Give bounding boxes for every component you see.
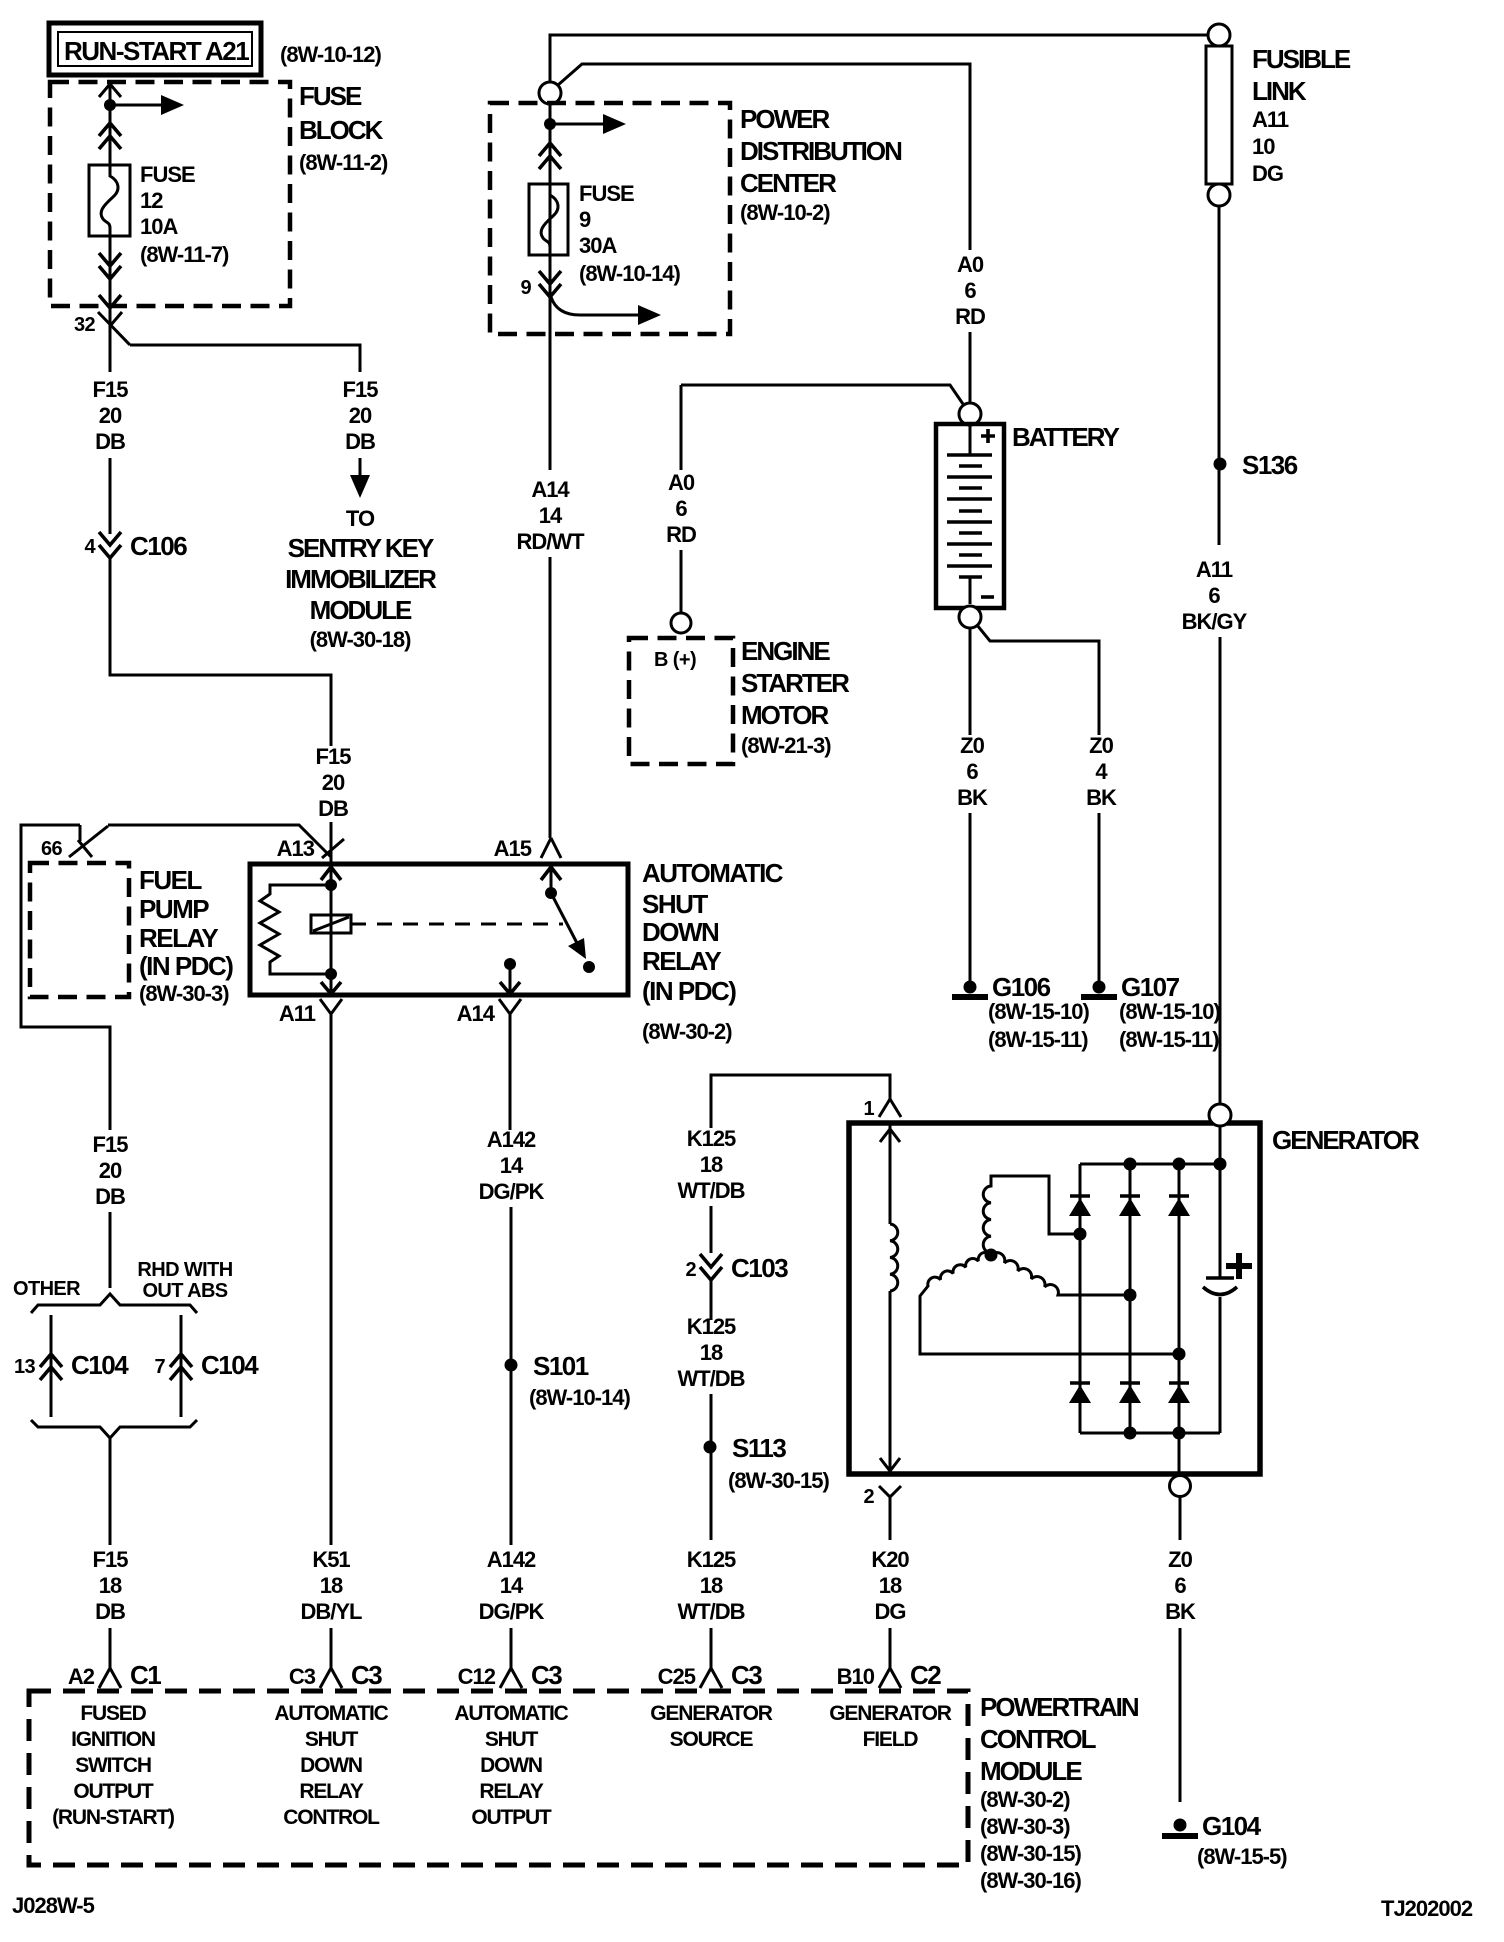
relay coil box: [311, 915, 351, 933]
svg-text:C1: C1: [130, 1660, 161, 1690]
relay switch contact top: [545, 887, 557, 899]
svg-text:AUTOMATIC: AUTOMATIC: [454, 1702, 568, 1725]
svg-text:OUTPUT: OUTPUT: [471, 1806, 552, 1829]
svg-text:C104: C104: [201, 1350, 259, 1380]
svg-text:BATTERY: BATTERY: [1012, 422, 1120, 452]
svg-text:K125: K125: [687, 1126, 736, 1151]
svg-text:1: 1: [863, 1098, 874, 1120]
arrowhead up at fuse block border: [99, 84, 121, 97]
connector chevrons down: [99, 253, 121, 279]
svg-text:BK/GY: BK/GY: [1182, 609, 1248, 634]
svg-text:(8W-30-18): (8W-30-18): [310, 627, 411, 652]
label FUSED IGNITION SWITCH OUTPUT (RUN-START): [52, 1702, 174, 1829]
wire A14 down to relay pin A15: [549, 557, 552, 838]
svg-text:G104: G104: [1202, 1811, 1262, 1841]
svg-text:6: 6: [966, 759, 978, 784]
svg-text:DB: DB: [345, 429, 375, 454]
wire A0 into battery positive: [969, 332, 972, 403]
stator winding phase B: [920, 1252, 1179, 1354]
svg-text:C106: C106: [130, 531, 187, 561]
svg-text:(RUN-START): (RUN-START): [52, 1806, 174, 1829]
label GENERATOR SOURCE: [650, 1702, 772, 1751]
wire branch to sentry key module: [130, 345, 360, 372]
relay coil wire: [330, 864, 333, 995]
label F15 18 DB: [93, 1547, 129, 1624]
svg-text:(8W-15-10): (8W-15-10): [988, 999, 1089, 1024]
wire C103 to S113: [710, 1280, 713, 1320]
chevron at fuse block exit: [99, 295, 121, 308]
wire splice to fuel pump relay: [108, 825, 344, 858]
field coil: [890, 1224, 898, 1291]
relay switch contact bottom: [583, 961, 595, 973]
label TO SENTRY KEY IMMOBILIZER MODULE: [285, 506, 437, 652]
wire from RUN-START A21 into fuse block: [109, 84, 112, 165]
wire from C106 to A13 column: [110, 556, 331, 746]
svg-text:AUTOMATIC: AUTOMATIC: [642, 858, 784, 888]
svg-text:FUEL: FUEL: [139, 865, 203, 895]
diode D5 lower: [1119, 1383, 1141, 1403]
label G106: [988, 972, 1089, 1052]
wire down left side to C104: [21, 825, 110, 1130]
svg-text:TO: TO: [346, 506, 375, 531]
svg-text:F15: F15: [343, 377, 379, 402]
arrow feed to other circuits: [550, 123, 606, 126]
phase B node: [1173, 1348, 1186, 1361]
svg-text:(8W-10-2): (8W-10-2): [740, 200, 830, 225]
svg-text:RELAY: RELAY: [299, 1780, 363, 1803]
label POWER DISTRIBUTION CENTER: [740, 104, 902, 225]
svg-text:DOWN: DOWN: [642, 917, 719, 947]
pin A15 fork: [541, 838, 561, 858]
svg-text:A14: A14: [531, 477, 570, 502]
wire from merge to F15 18 DB: [109, 1438, 112, 1545]
relay mechanical link dashed: [351, 923, 563, 926]
wire Z0 6 BK to G106: [969, 628, 972, 735]
field wire arrow down: [880, 1458, 900, 1471]
svg-text:GENERATOR: GENERATOR: [650, 1702, 772, 1725]
svg-text:BK: BK: [957, 785, 988, 810]
svg-text:DB/YL: DB/YL: [301, 1599, 363, 1624]
pin A14 fork: [499, 999, 521, 1014]
ground G106: [952, 981, 988, 998]
svg-text:K51: K51: [312, 1547, 350, 1572]
svg-text:WT/DB: WT/DB: [677, 1178, 744, 1203]
svg-text:6: 6: [675, 496, 687, 521]
svg-text:CENTER: CENTER: [740, 168, 837, 198]
connector chevrons up: [539, 143, 561, 169]
svg-text:Z0: Z0: [1168, 1547, 1192, 1572]
wire into relay pin A13: [330, 822, 333, 864]
node junction dot: [104, 99, 116, 111]
svg-text:FUSE: FUSE: [140, 162, 195, 187]
svg-text:WT/DB: WT/DB: [677, 1366, 744, 1391]
svg-text:(8W-15-10): (8W-15-10): [1119, 999, 1220, 1024]
label Z0 6 BK (generator): [1165, 1547, 1196, 1624]
svg-text:G107: G107: [1121, 972, 1180, 1002]
svg-text:2: 2: [685, 1259, 696, 1281]
node junction dot in PDC: [544, 118, 556, 130]
svg-text:(IN PDC): (IN PDC): [642, 976, 736, 1006]
svg-text:(8W-10-14): (8W-10-14): [529, 1385, 630, 1410]
generator field wire: [889, 1123, 892, 1474]
svg-text:CONTROL: CONTROL: [980, 1724, 1097, 1754]
label Z0 6 BK: [957, 733, 988, 810]
svg-text:IGNITION: IGNITION: [71, 1728, 155, 1751]
fuse F12 element curve: [101, 165, 118, 236]
generator output terminal: [1209, 1104, 1231, 1126]
svg-text:B (+): B (+): [654, 649, 696, 671]
label K125 18 WT/DB (upper): [677, 1126, 744, 1203]
svg-text:20: 20: [99, 1158, 122, 1183]
svg-text:S136: S136: [1242, 450, 1298, 480]
svg-text:BK: BK: [1086, 785, 1117, 810]
wire Z0 to G104: [1179, 1628, 1182, 1802]
label A14 14 RD/WT: [516, 477, 585, 554]
label K51 18 DB/YL: [301, 1547, 363, 1624]
svg-text:DG: DG: [875, 1599, 906, 1624]
wire into pin C12: [510, 1628, 513, 1668]
svg-text:14: 14: [539, 503, 563, 528]
svg-text:(8W-10-14): (8W-10-14): [579, 261, 680, 286]
label A11 6 BK/GY: [1182, 557, 1248, 634]
diode D2 upper: [1119, 1196, 1141, 1216]
connector chevrons up: [99, 123, 121, 149]
svg-text:20: 20: [322, 770, 345, 795]
wire A142 to S101: [510, 1207, 513, 1545]
pin 1 fork: [879, 1099, 901, 1117]
svg-text:RELAY: RELAY: [642, 946, 721, 976]
diode column 3 wire: [1178, 1164, 1181, 1433]
svg-text:4: 4: [84, 536, 96, 558]
wire to S113: [710, 1394, 713, 1540]
label Z0 4 BK: [1086, 733, 1117, 810]
label AUTOMATIC SHUT DOWN RELAY (IN PDC): [642, 858, 784, 1044]
connector C104 chevrons (7): [170, 1354, 192, 1380]
wire F15 left down: [109, 326, 112, 372]
svg-text:6: 6: [1208, 583, 1220, 608]
svg-text:A0: A0: [668, 470, 695, 495]
svg-text:12: 12: [140, 188, 163, 213]
wire into B(+) stud: [680, 550, 683, 613]
split brace top: [31, 1294, 197, 1313]
svg-text:6: 6: [964, 278, 976, 303]
svg-text:20: 20: [99, 403, 122, 428]
generator ground terminal: [1170, 1476, 1191, 1497]
relay switch common wire: [550, 864, 553, 893]
svg-text:DG/PK: DG/PK: [479, 1599, 545, 1624]
label ENGINE STARTER MOTOR: [741, 636, 850, 758]
pin C25 fork: [700, 1668, 722, 1688]
pin C12 fork: [500, 1668, 522, 1688]
svg-text:MODULE: MODULE: [980, 1756, 1082, 1786]
svg-text:RHD WITH: RHD WITH: [137, 1259, 232, 1281]
svg-text:BK: BK: [1165, 1599, 1196, 1624]
svg-text:A14: A14: [457, 1001, 496, 1026]
svg-text:FIELD: FIELD: [863, 1728, 919, 1751]
svg-text:(IN PDC): (IN PDC): [139, 951, 233, 981]
fusible link top terminal: [1208, 24, 1230, 46]
svg-text:G106: G106: [992, 972, 1051, 1002]
relay output wire A14: [509, 964, 512, 995]
svg-text:20: 20: [349, 403, 372, 428]
svg-text:ENGINE: ENGINE: [741, 636, 830, 666]
capacitor C1: [1203, 1278, 1237, 1295]
label FUSE BLOCK: [299, 81, 388, 175]
svg-text:(8W-30-16): (8W-30-16): [980, 1868, 1081, 1893]
label G104: [1197, 1811, 1287, 1869]
battery cell plates: [947, 455, 992, 577]
splice S113: [704, 1441, 717, 1454]
svg-text:MOTOR: MOTOR: [741, 700, 830, 730]
wire Z0 6 BK lower: [969, 813, 972, 983]
svg-text:(8W-15-11): (8W-15-11): [1119, 1027, 1219, 1052]
svg-text:FUSIBLE: FUSIBLE: [1252, 44, 1351, 74]
engine starter motor dashed box: [629, 638, 733, 764]
wire battery feed to battery: [558, 64, 970, 250]
svg-text:K125: K125: [687, 1314, 736, 1339]
label AUTOMATIC SHUT DOWN RELAY OUTPUT: [454, 1702, 568, 1829]
label FUEL PUMP RELAY (IN PDC): [139, 865, 233, 1006]
svg-text:RELAY: RELAY: [479, 1780, 543, 1803]
svg-text:C103: C103: [731, 1253, 788, 1283]
svg-text:7: 7: [154, 1356, 165, 1378]
wire into pin C25: [710, 1628, 713, 1668]
switch feed to other circuits: [551, 297, 642, 315]
svg-text:SHUT: SHUT: [642, 889, 708, 919]
label FUSIBLE LINK A11 10 DG: [1252, 44, 1351, 186]
svg-text:(8W-10-12): (8W-10-12): [280, 42, 381, 67]
svg-text:18: 18: [320, 1573, 343, 1598]
pin B10 fork: [879, 1668, 901, 1688]
branch wire right (RHD): [180, 1315, 183, 1417]
connector chevrons down: [539, 271, 561, 297]
svg-text:10: 10: [1252, 134, 1275, 159]
wire to split brace: [109, 1212, 112, 1288]
fusible link body: [1206, 46, 1232, 184]
svg-text:C3: C3: [531, 1660, 562, 1690]
svg-text:6: 6: [1174, 1573, 1186, 1598]
battery minus sign: [981, 595, 994, 599]
svg-text:C3: C3: [731, 1660, 762, 1690]
svg-text:30A: 30A: [579, 233, 617, 258]
label G107: [1119, 972, 1220, 1052]
diode D4 lower: [1069, 1383, 1091, 1403]
PCM dashed box: [29, 1691, 968, 1865]
splice S136: [1214, 458, 1227, 471]
svg-text:DB: DB: [95, 1184, 125, 1209]
ground G107: [1081, 981, 1117, 998]
svg-text:(8W-21-3): (8W-21-3): [741, 733, 831, 758]
svg-text:C3: C3: [289, 1664, 316, 1689]
svg-text:DB: DB: [95, 1599, 125, 1624]
fuse F12 body: [89, 165, 130, 236]
coil node bottom: [325, 968, 337, 980]
label GENERATOR FIELD: [829, 1702, 951, 1751]
svg-text:OTHER: OTHER: [13, 1278, 81, 1300]
svg-text:RUN-START A21: RUN-START A21: [64, 36, 249, 66]
pin A2 fork: [99, 1668, 121, 1688]
label K20 18 DG: [871, 1547, 909, 1624]
connector C106 chevrons: [99, 532, 121, 558]
pin C3 fork: [320, 1668, 342, 1688]
svg-text:(8W-11-2): (8W-11-2): [299, 150, 388, 175]
svg-text:(8W-11-7): (8W-11-7): [140, 242, 229, 267]
wire A11 down to generator output: [1219, 637, 1222, 1104]
diode D3 upper: [1168, 1196, 1190, 1216]
svg-text:(8W-15-11): (8W-15-11): [988, 1027, 1088, 1052]
svg-text:32: 32: [74, 314, 96, 336]
battery positive terminal: [959, 403, 981, 425]
label F15 20 DB (left): [93, 377, 129, 454]
svg-text:4: 4: [1095, 759, 1108, 784]
svg-text:A11: A11: [1252, 107, 1289, 132]
pin A14 chevron inside: [500, 982, 520, 994]
svg-text:K20: K20: [871, 1547, 909, 1572]
svg-text:TJ202002: TJ202002: [1381, 1896, 1473, 1921]
label F15 20 DB (right): [343, 377, 379, 454]
svg-text:SOURCE: SOURCE: [670, 1728, 754, 1751]
svg-text:RD: RD: [666, 522, 696, 547]
label FUSE 12 10A: [140, 162, 229, 267]
svg-text:(8W-30-3): (8W-30-3): [139, 981, 229, 1006]
svg-text:SHUT: SHUT: [305, 1728, 359, 1751]
svg-text:J028W-5: J028W-5: [12, 1893, 95, 1918]
field wire arrow up: [880, 1129, 900, 1142]
svg-text:POWER: POWER: [740, 104, 830, 134]
relay output node A14: [504, 958, 516, 970]
svg-text:RD: RD: [955, 304, 985, 329]
wire K51 relay control: [330, 1014, 333, 1545]
rectifier top rail: [1080, 1163, 1220, 1166]
svg-text:STARTER: STARTER: [741, 668, 850, 698]
label S113: [728, 1433, 829, 1493]
svg-text:2: 2: [863, 1486, 874, 1508]
label AUTOMATIC SHUT DOWN RELAY CONTROL: [274, 1702, 388, 1829]
svg-text:A13: A13: [277, 836, 315, 861]
svg-text:C104: C104: [71, 1350, 129, 1380]
arrow feed to other circuits: [110, 104, 164, 107]
svg-text:(8W-15-5): (8W-15-5): [1197, 1844, 1287, 1869]
svg-text:DG/PK: DG/PK: [479, 1179, 545, 1204]
svg-text:DB: DB: [95, 429, 125, 454]
fuse F9 element curve: [541, 184, 558, 255]
ASD relay box: [250, 864, 628, 995]
label F15 20 DB (A13 column): [316, 744, 352, 821]
stator centre node: [985, 1249, 998, 1262]
svg-text:POWERTRAIN: POWERTRAIN: [980, 1692, 1139, 1722]
label A0 6 RD (starter): [666, 470, 696, 547]
svg-text:14: 14: [500, 1153, 524, 1178]
svg-text:S113: S113: [732, 1433, 786, 1463]
pin 32 splice fork: [98, 312, 130, 345]
generator output wire B+: [1219, 1126, 1222, 1433]
ground G104: [1162, 1819, 1198, 1837]
svg-text:A15: A15: [494, 836, 532, 861]
wire Z0 4 BK to G107: [977, 625, 1099, 735]
svg-text:S101: S101: [533, 1351, 589, 1381]
battery plus sign: [981, 429, 995, 443]
svg-text:18: 18: [879, 1573, 902, 1598]
branch wire left (other): [50, 1315, 53, 1417]
svg-text:RD/WT: RD/WT: [516, 529, 585, 554]
svg-text:18: 18: [700, 1152, 723, 1177]
svg-text:13: 13: [14, 1356, 36, 1378]
svg-text:LINK: LINK: [1252, 76, 1307, 106]
battery internal stem bottom: [969, 577, 972, 604]
stator winding phase C: [991, 1253, 1130, 1295]
svg-text:GENERATOR: GENERATOR: [1272, 1125, 1420, 1155]
diode column 2 wire: [1129, 1164, 1132, 1433]
wire K125 to C103: [710, 1206, 713, 1253]
svg-text:(8W-30-15): (8W-30-15): [980, 1841, 1081, 1866]
PDC dashed box: [490, 103, 730, 334]
PDC battery stud terminal: [539, 82, 561, 104]
pin A11 chevron inside: [321, 982, 341, 994]
svg-text:RELAY: RELAY: [139, 923, 218, 953]
pin A15 chevron inside: [541, 867, 561, 880]
svg-text:C12: C12: [458, 1664, 496, 1689]
svg-text:A11: A11: [279, 1001, 316, 1026]
svg-text:SHUT: SHUT: [485, 1728, 539, 1751]
svg-text:DG: DG: [1252, 161, 1283, 186]
pin A11 fork: [320, 999, 342, 1014]
svg-text:F15: F15: [93, 1547, 129, 1572]
svg-text:(8W-30-2): (8W-30-2): [980, 1787, 1070, 1812]
svg-text:A0: A0: [957, 252, 984, 277]
svg-text:FUSE: FUSE: [299, 81, 362, 111]
svg-text:Z0: Z0: [1089, 733, 1113, 758]
starter B(+) stud terminal: [671, 613, 691, 633]
svg-text:WT/DB: WT/DB: [677, 1599, 744, 1624]
svg-text:GENERATOR: GENERATOR: [829, 1702, 951, 1725]
svg-text:OUTPUT: OUTPUT: [73, 1780, 154, 1803]
wire into pin B10: [889, 1628, 892, 1668]
label A142 14 DG/PK (lower): [479, 1547, 545, 1624]
splice S101: [505, 1359, 518, 1372]
svg-text:A2: A2: [68, 1664, 95, 1689]
wire down to starter B(+): [680, 385, 683, 470]
wire battery positive to starter feed: [681, 385, 963, 404]
svg-text:SWITCH: SWITCH: [75, 1754, 151, 1777]
diode D6 lower: [1168, 1383, 1190, 1403]
svg-text:A142: A142: [487, 1127, 536, 1152]
battery negative terminal: [959, 606, 981, 628]
svg-text:CONTROL: CONTROL: [283, 1806, 380, 1829]
fusible link bottom terminal: [1208, 184, 1230, 206]
diode D1 upper: [1069, 1196, 1091, 1216]
svg-text:F15: F15: [316, 744, 352, 769]
svg-text:OUT ABS: OUT ABS: [142, 1280, 227, 1302]
arrow down to sentry key module: [359, 458, 362, 478]
stator winding phase A: [983, 1176, 1074, 1253]
label K125 18 WT/DB (middle): [677, 1314, 744, 1391]
wire into pin C3: [330, 1628, 333, 1668]
wire A142 relay output upper: [509, 1014, 512, 1130]
svg-text:F15: F15: [93, 377, 129, 402]
svg-text:A11: A11: [1196, 557, 1233, 582]
wire into pin A2: [109, 1628, 112, 1668]
merge brace bottom: [31, 1420, 197, 1438]
label A142 14 DG/PK: [479, 1127, 545, 1204]
svg-text:10A: 10A: [140, 214, 178, 239]
fuse F9 body: [529, 184, 568, 255]
svg-text:DOWN: DOWN: [300, 1754, 362, 1777]
diode column 1 wire: [1079, 1164, 1082, 1433]
node RUN-START A21 source box: [49, 23, 261, 75]
svg-text:B10: B10: [837, 1664, 875, 1689]
label A0 6 RD (battery feed): [955, 252, 985, 329]
svg-text:9: 9: [579, 207, 591, 232]
